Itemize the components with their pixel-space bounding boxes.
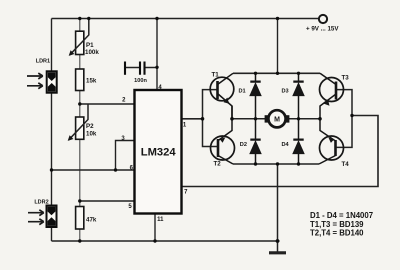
svg-text:LM324: LM324 [141, 147, 177, 159]
svg-text:LDR1: LDR1 [36, 59, 50, 65]
svg-text:P2: P2 [86, 123, 94, 130]
svg-text:100n: 100n [134, 78, 147, 84]
svg-text:T3: T3 [342, 75, 350, 82]
svg-text:15k: 15k [86, 78, 97, 85]
svg-text:T2: T2 [214, 161, 222, 168]
svg-text:LDR2: LDR2 [34, 200, 48, 206]
svg-text:D1 - D4 = 1N4007: D1 - D4 = 1N4007 [310, 211, 373, 220]
svg-text:11: 11 [157, 217, 164, 223]
svg-text:D4: D4 [282, 142, 290, 148]
svg-text:D1: D1 [239, 89, 246, 95]
svg-text:100k: 100k [85, 49, 99, 56]
svg-text:T4: T4 [342, 161, 350, 168]
svg-text:T1: T1 [212, 72, 220, 79]
svg-text:D3: D3 [282, 89, 289, 95]
svg-text:+ 9V ... 15V: + 9V ... 15V [306, 26, 339, 33]
svg-text:P1: P1 [86, 42, 94, 49]
svg-text:D2: D2 [240, 142, 247, 148]
svg-text:47k: 47k [86, 217, 97, 224]
svg-text:T2,T4 = BD140: T2,T4 = BD140 [310, 229, 364, 238]
svg-text:M: M [274, 116, 280, 123]
svg-text:10k: 10k [86, 131, 97, 138]
